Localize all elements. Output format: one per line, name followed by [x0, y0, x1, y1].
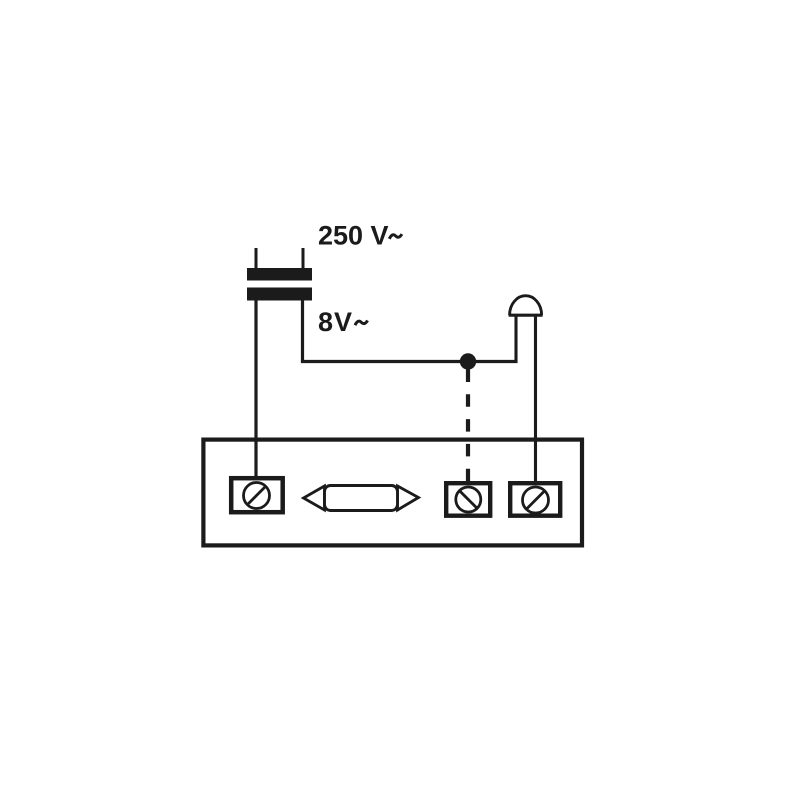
push button S1 right leg wire to terminal 3 [534, 317, 537, 485]
label 8 V~ [318, 307, 368, 337]
terminal 1 screw [231, 478, 283, 512]
enclosure box [203, 440, 582, 546]
terminal 2 screw [446, 483, 490, 516]
wire horizontal 8V bus [301, 360, 518, 363]
label 250 V~ [318, 221, 402, 251]
push button S1 left leg wire [514, 317, 517, 364]
transformer T1 primary lead right [302, 248, 305, 269]
dashed wire to terminal 2 [466, 370, 470, 483]
transformer T1 secondary bar [247, 288, 312, 301]
svg-text:250 V: 250 V [318, 221, 389, 251]
transformer T1 primary lead left [255, 248, 258, 269]
junction node dot [460, 353, 476, 369]
transformer T1 primary bar [247, 268, 312, 281]
wire secondary left vertical to terminal 1 [254, 300, 257, 479]
festoon lamp E1 [304, 486, 419, 511]
svg-text:8V: 8V [318, 307, 352, 337]
wire secondary right vertical [301, 300, 304, 362]
terminal 3 screw [510, 483, 560, 516]
push button S1 dome [509, 296, 543, 315]
